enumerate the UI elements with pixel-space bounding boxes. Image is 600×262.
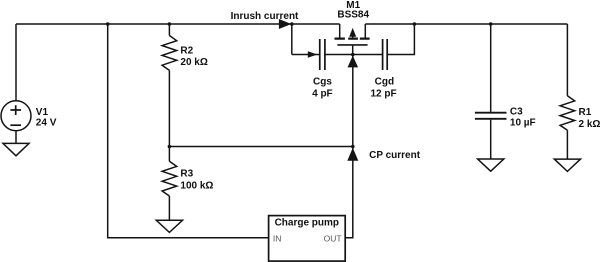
wire R2 top lead bbox=[168, 24, 170, 36]
wire R3 bottom lead bbox=[168, 196, 170, 220]
svg-text:R2: R2 bbox=[180, 46, 193, 57]
junction dot rail-R2 bbox=[168, 22, 172, 26]
svg-text:100 kΩ: 100 kΩ bbox=[180, 181, 213, 192]
wire gate node to Cgs bbox=[292, 54, 320, 56]
junction dot R2-R3 bbox=[168, 145, 172, 149]
junction dot rail-C3 bbox=[489, 22, 493, 26]
svg-text:BSS84: BSS84 bbox=[337, 9, 369, 20]
junction dot rail-CP drop bbox=[106, 22, 110, 26]
svg-text:CP current: CP current bbox=[369, 150, 421, 161]
svg-text:V1: V1 bbox=[36, 107, 49, 118]
svg-text:Cgs: Cgs bbox=[313, 76, 332, 87]
svg-text:Inrush current: Inrush current bbox=[231, 11, 299, 22]
resistor R2 bbox=[162, 36, 177, 71]
svg-text:IN: IN bbox=[273, 234, 282, 244]
wire Cgs to Cgd bbox=[325, 54, 383, 56]
svg-text:24 V: 24 V bbox=[36, 118, 57, 129]
svg-text:C3: C3 bbox=[510, 107, 523, 118]
wire R2 bottom lead bbox=[168, 70, 170, 146]
wire R1 bottom lead bbox=[566, 130, 568, 159]
wire inrush branch drop bbox=[291, 24, 293, 55]
ground below R3 bbox=[156, 220, 182, 232]
ground below R1 bbox=[554, 159, 580, 171]
svg-text:R3: R3 bbox=[180, 168, 193, 179]
svg-text:R1: R1 bbox=[579, 107, 592, 118]
wire top rail left segment bbox=[16, 23, 340, 25]
wire top rail right segment bbox=[365, 23, 567, 25]
capacitor Cgd bbox=[383, 39, 388, 70]
wire C3 bottom lead bbox=[490, 120, 492, 159]
charge pump box bbox=[269, 216, 346, 262]
CP current arrow at gate node bbox=[348, 56, 359, 68]
ground below V1 bbox=[3, 143, 29, 155]
svg-text:Charge pump: Charge pump bbox=[275, 217, 339, 228]
wire V1 top lead bbox=[15, 24, 17, 101]
junction dot gate node bbox=[351, 53, 355, 57]
svg-text:OUT: OUT bbox=[324, 234, 342, 244]
svg-text:4 pF: 4 pF bbox=[312, 89, 333, 100]
svg-text:20 kΩ: 20 kΩ bbox=[180, 57, 207, 68]
wire R3 top lead bbox=[168, 147, 170, 162]
svg-text:Cgd: Cgd bbox=[375, 76, 394, 87]
resistor R1 bbox=[560, 96, 575, 130]
wire left drop to charge pump IN bbox=[108, 24, 269, 238]
transistor M1 bbox=[335, 24, 370, 55]
capacitor Cgs bbox=[320, 39, 325, 70]
junction dot rail-Cgd riser bbox=[413, 22, 417, 26]
svg-text:2 kΩ: 2 kΩ bbox=[579, 119, 600, 130]
wire C3 top lead bbox=[490, 24, 492, 112]
resistor R3 bbox=[162, 161, 177, 196]
junction dot divider node bbox=[351, 145, 355, 149]
svg-text:12 pF: 12 pF bbox=[370, 89, 396, 100]
wire charge pump OUT riser bbox=[345, 55, 353, 238]
wire V1 bottom lead bbox=[15, 131, 17, 144]
ground below C3 bbox=[478, 159, 504, 171]
junction dot rail-inrush branch bbox=[290, 22, 294, 26]
wire divider node to CP line bbox=[169, 146, 352, 148]
gate charge current arrow bbox=[308, 51, 318, 58]
wire Cgd to drain riser bbox=[387, 24, 414, 55]
svg-text:10 µF: 10 µF bbox=[510, 118, 536, 129]
capacitor C3 bbox=[475, 113, 507, 119]
voltage source V1 bbox=[1, 101, 31, 131]
wire R1 top lead bbox=[566, 24, 568, 96]
CP current arrow at divider node bbox=[347, 148, 358, 161]
inrush current arrow bbox=[279, 19, 291, 29]
